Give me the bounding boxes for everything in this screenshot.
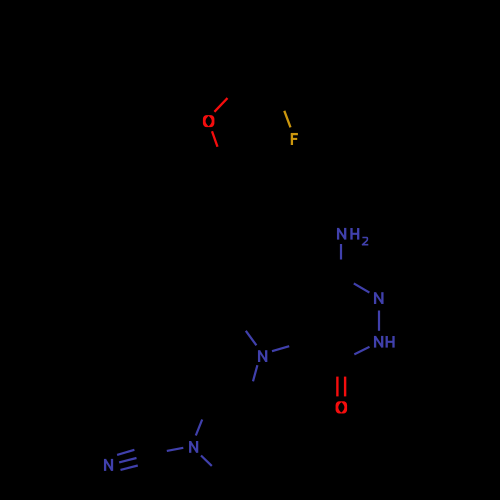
atom N5 (cyanamide amine N) (190, 441, 197, 453)
bond N4-C7a (half near pyrrole N) (246, 331, 257, 346)
bond N2-N3 (full bond, both halves blue) (378, 311, 380, 331)
atom N3 group NH (pyridazinone NH) (375, 336, 393, 348)
atom N6 (nitrile N) (105, 459, 112, 471)
bond N3-C7 (half near N3) (354, 347, 369, 355)
bond C7=O2 carbonyl double (halves near O) (336, 377, 338, 397)
bond O1-CH3 methoxy (half near O) (214, 98, 227, 112)
bond C#N6 nitrile triple (three lines, halves near N) (117, 450, 134, 455)
bond N5-CH3 (half near amine N) (201, 456, 212, 466)
atom N2 (pyridazine N) (375, 292, 382, 304)
atom N4 (pyrrole N) (259, 350, 266, 362)
atom O2 (carbonyl oxygen) (336, 401, 348, 413)
bond NH2-C4 (half near N) (340, 244, 342, 260)
atom O1 (methoxy oxygen) (203, 115, 215, 127)
bond N5-C(nitrile) (half near amine N) (167, 448, 184, 451)
atom N1 group NH2 (amino) (338, 228, 368, 245)
bond F1-Caryl (half near F) (284, 111, 290, 128)
bond O1-Caryl (half near O) (212, 131, 218, 147)
bond N5-CH2 chain (half near amine N) (196, 420, 202, 436)
bond C4=N2 (half near N2) (354, 283, 370, 292)
bond N4-C2 (half near pyrrole N) (272, 346, 289, 351)
atom F1 (fluorine) (291, 133, 298, 145)
bond N4-CH2 chain (half near pyrrole N) (253, 365, 257, 381)
